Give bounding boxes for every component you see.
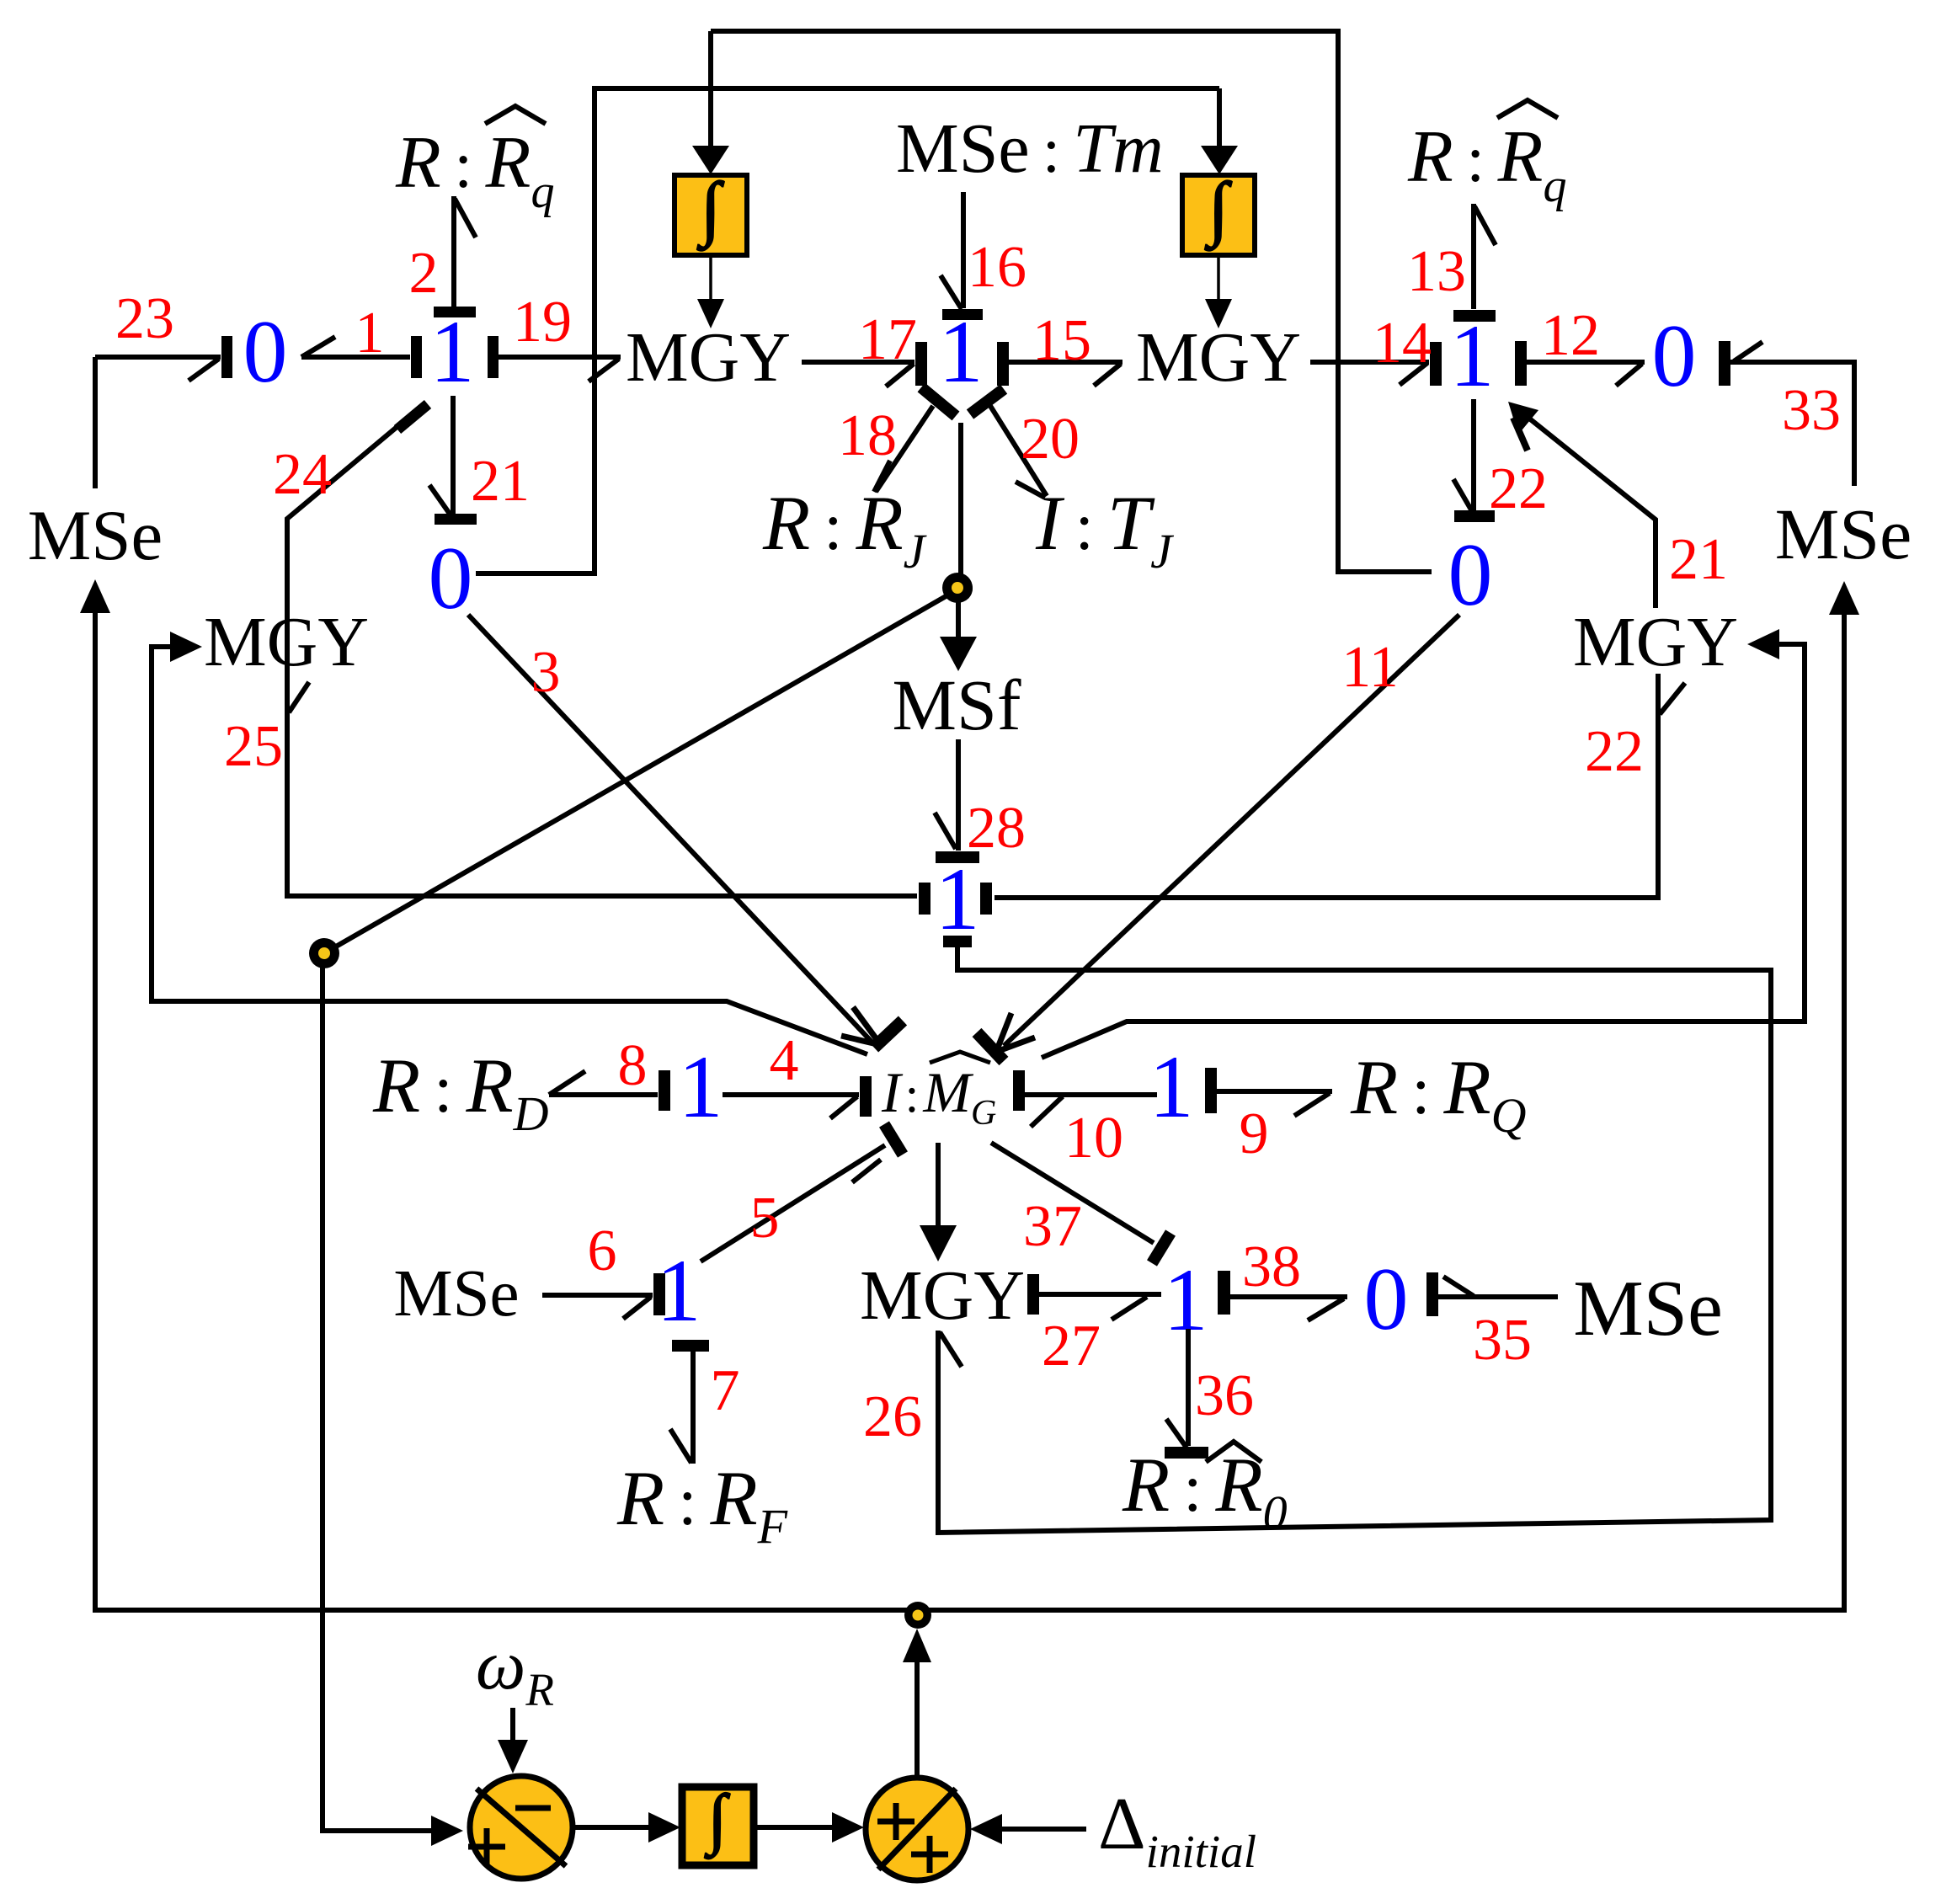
svg-text:8: 8: [618, 1033, 648, 1098]
svg-text:MGY: MGY: [204, 603, 369, 681]
svg-text:∫: ∫: [1204, 168, 1232, 251]
signal wire MGY mid-right from I:MG: [1042, 644, 1805, 1058]
wire minus circle to integrator: [575, 1825, 648, 1830]
svg-text:15: 15: [1032, 308, 1091, 373]
svg-text:21: 21: [471, 449, 530, 514]
svg-text:22: 22: [1489, 456, 1548, 521]
node dot 3 (top layer): [904, 1602, 931, 1629]
bond 22 right upper: [1471, 399, 1476, 511]
bond 11 arrowhead + causal stroke at I:MG: [996, 1037, 1035, 1052]
wire junction1 center down to node dot: [958, 423, 963, 579]
svg-text:10: 10: [1064, 1106, 1123, 1171]
svg-text:1: 1: [1149, 1037, 1194, 1136]
bond 22 right lower: [994, 674, 1658, 898]
svg-text:38: 38: [1242, 1235, 1301, 1299]
svg-text:0: 0: [1364, 1250, 1409, 1348]
svg-text:5: 5: [750, 1186, 780, 1251]
svg-text:MSe: MSe: [1775, 493, 1912, 574]
bond 14: [1310, 360, 1429, 365]
svg-text:1: 1: [936, 850, 980, 948]
bond 37: [991, 1143, 1154, 1243]
svg-text:0: 0: [243, 302, 288, 401]
svg-text:R : RJ: R : RJ: [762, 480, 928, 579]
svg-text:R : R0: R : R0: [1122, 1442, 1288, 1540]
summing circle plus/plus: [866, 1778, 968, 1880]
svg-text:0: 0: [429, 529, 473, 627]
wire into right integrator: [1217, 88, 1222, 148]
svg-text:1: 1: [657, 1241, 701, 1340]
bond 4: [723, 1092, 859, 1097]
summing circle minus/plus: [470, 1776, 573, 1879]
svg-text:MGY: MGY: [1136, 318, 1301, 397]
bond 24: [287, 407, 421, 679]
bond 33: [1719, 341, 1730, 386]
bond 20: [970, 389, 1004, 414]
wire integrator to plus circle: [754, 1825, 832, 1830]
bond 5: [701, 1145, 885, 1261]
bond 18: [921, 387, 956, 416]
node dot 2 (top layer): [309, 938, 339, 968]
svg-text:25: 25: [224, 714, 283, 779]
wire right integrator to MGY: [1217, 255, 1220, 301]
svg-text:14: 14: [1373, 311, 1432, 376]
svg-text:MGY: MGY: [626, 318, 791, 397]
svg-text:13: 13: [1407, 239, 1466, 304]
bond 19: [488, 336, 499, 378]
svg-text:20: 20: [1021, 407, 1080, 472]
svg-text:4: 4: [770, 1028, 799, 1093]
wire plus-circle up to dot3: [915, 1651, 920, 1775]
bond 6: [542, 1293, 653, 1298]
svg-text:26: 26: [863, 1384, 922, 1449]
bond 35: [1426, 1272, 1438, 1316]
signal wire I:MG down to MGY bottom: [936, 1143, 941, 1228]
bond 15: [997, 342, 1009, 386]
bond 8: [549, 1092, 658, 1097]
bond 3 arrowhead + causal stroke at I:MG: [853, 1007, 881, 1045]
bond 2: [434, 307, 476, 317]
svg-text:9: 9: [1240, 1101, 1269, 1166]
svg-text:18: 18: [838, 403, 897, 468]
bond 38: [1218, 1271, 1230, 1315]
wire 0 mid-right to I:MG (bond 11): [1004, 615, 1459, 1046]
svg-text:MSe: MSe: [1573, 1265, 1723, 1352]
wire dot1 to dot2: [324, 589, 959, 953]
svg-text:MSe : Tm: MSe : Tm: [896, 109, 1164, 188]
svg-text:MSe: MSe: [393, 1257, 519, 1331]
svg-text:3: 3: [531, 640, 561, 705]
svg-text:1: 1: [355, 301, 385, 365]
svg-text:35: 35: [1473, 1308, 1532, 1373]
wire omega R down into minus circle: [510, 1708, 515, 1741]
svg-text:37: 37: [1023, 1194, 1082, 1259]
bond 9: [1205, 1068, 1217, 1113]
svg-text:21: 21: [1669, 527, 1728, 592]
svg-text:∫: ∫: [696, 168, 724, 251]
bond 27: [1027, 1274, 1039, 1315]
bond 7: [672, 1340, 709, 1352]
bond 1: [301, 355, 410, 360]
svg-text:24: 24: [273, 442, 332, 507]
bond 13: [1471, 204, 1476, 309]
integrator block right: [1182, 175, 1255, 255]
bond 36: [1186, 1329, 1191, 1446]
svg-text:MSf: MSf: [893, 664, 1021, 745]
svg-text:19: 19: [513, 290, 572, 355]
svg-text:1: 1: [679, 1037, 723, 1136]
node dot 3: [905, 1603, 931, 1628]
svg-text:23: 23: [115, 286, 174, 351]
wire 0 mid-left to I:MG (bond 3): [468, 615, 872, 1043]
wire left integrator to MGY: [709, 255, 712, 301]
bond 28: [956, 739, 961, 851]
bond 26 wire (center 1 to bottom MGY): [938, 947, 1771, 1533]
svg-text:16: 16: [968, 235, 1026, 300]
node dot 2: [311, 940, 338, 967]
integrator block bottom: [682, 1787, 754, 1865]
svg-text:MGY: MGY: [1573, 603, 1738, 681]
bond 12: [1515, 341, 1527, 386]
bond 17: [802, 360, 915, 365]
bond 23: [95, 355, 221, 360]
wire dot2 down to minus summing circle: [323, 965, 431, 1831]
svg-text:MSe: MSe: [28, 496, 163, 575]
bond 25: [287, 679, 917, 896]
svg-text:12: 12: [1541, 303, 1600, 368]
wire Delta initial into plus circle: [1002, 1827, 1086, 1832]
signal wire MGY mid-left from I:MG: [152, 647, 867, 1054]
bond 21 left: [451, 396, 456, 515]
node dot 1: [946, 575, 973, 602]
svg-text:0: 0: [1652, 307, 1697, 405]
wire dot to MSf: [956, 600, 961, 640]
wire MSe left up to bond 23: [93, 357, 98, 488]
wire MSe left from long bottom bus: [95, 611, 1844, 1610]
svg-text:36: 36: [1195, 1363, 1254, 1428]
svg-text:17: 17: [858, 307, 917, 372]
svg-text:27: 27: [1042, 1314, 1101, 1379]
wire into left integrator: [708, 31, 713, 148]
wire top outer (right 0 junction to left integrator): [711, 31, 1432, 572]
bond 16: [961, 192, 966, 308]
wire top inner (left 0 junction to right integrator): [476, 88, 1219, 573]
svg-text:2: 2: [409, 241, 439, 306]
svg-text:6: 6: [588, 1219, 617, 1283]
svg-text:MGY: MGY: [860, 1256, 1025, 1335]
svg-text:33: 33: [1782, 378, 1841, 443]
svg-text:7: 7: [711, 1358, 740, 1423]
node dot 1 (top layer): [942, 573, 973, 603]
svg-text:0: 0: [1448, 525, 1493, 624]
bond 10: [1013, 1070, 1025, 1111]
integrator block left: [675, 175, 747, 255]
bond 21 right (diagonal from MGY lower right into 1): [1516, 408, 1656, 608]
svg-text:11: 11: [1341, 635, 1398, 700]
svg-text:22: 22: [1585, 719, 1644, 784]
